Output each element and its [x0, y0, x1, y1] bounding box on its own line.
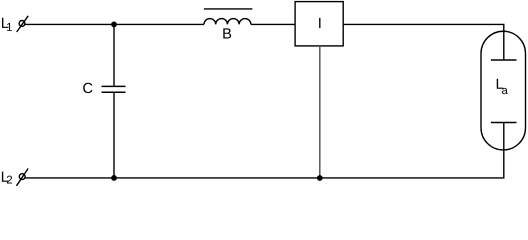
inductor core bar [204, 8, 253, 10]
label I [319, 18, 320, 28]
terminal L2 [17, 169, 29, 186]
capacitor branch lower wire [113, 92, 115, 178]
label C [83, 83, 92, 93]
junction dot top (cap branch / top rail) [111, 22, 117, 28]
label La [497, 79, 508, 94]
label B [223, 28, 231, 38]
terminal L1 [17, 16, 29, 32]
junction dot bottom left (cap branch / bottom rail) [111, 175, 117, 181]
label L2 [2, 172, 12, 184]
lamp top electrode [491, 59, 517, 61]
junction dot bottom right (igniter branch / bottom rail) [317, 175, 323, 181]
capacitor branch upper wire [113, 24, 115, 86]
capacitor C plates [102, 86, 126, 92]
label L1 [2, 18, 12, 31]
wire top rail left [25, 23, 204, 25]
wire box I to lamp, down into lamp top [343, 24, 504, 60]
wire box I down to bottom rail [319, 46, 321, 178]
wire inductor to box I [251, 23, 295, 25]
box I (igniter) [295, 2, 343, 46]
inductor B [204, 19, 251, 25]
lamp bottom lead to bottom rail [503, 123, 505, 178]
lamp bottom electrode [491, 122, 517, 124]
wire bottom rail [25, 177, 505, 179]
lamp La envelope [481, 31, 526, 150]
